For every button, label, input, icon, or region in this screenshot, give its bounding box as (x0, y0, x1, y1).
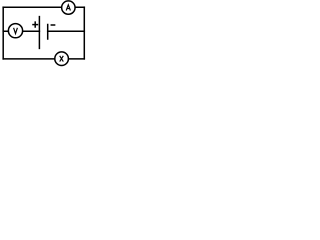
ammeter label A (66, 5, 70, 11)
battery B1 positive long plate (38, 17, 40, 49)
wire middle right (battery to right border) (48, 30, 85, 32)
wire middle left (node to voltmeter and battery) (3, 30, 39, 32)
battery B1 negative short plate (47, 25, 49, 40)
voltmeter label V (14, 28, 18, 34)
wire top (3, 6, 84, 8)
wire right border (83, 7, 85, 59)
wire left border (2, 7, 4, 59)
lamp label X (60, 56, 64, 62)
wire bottom (3, 58, 84, 60)
plus label of battery (33, 24, 37, 26)
lamp U3 circle (55, 52, 69, 66)
voltmeter U2 circle (8, 24, 22, 38)
minus label of battery (51, 24, 54, 26)
ammeter U1 circle (62, 1, 75, 14)
